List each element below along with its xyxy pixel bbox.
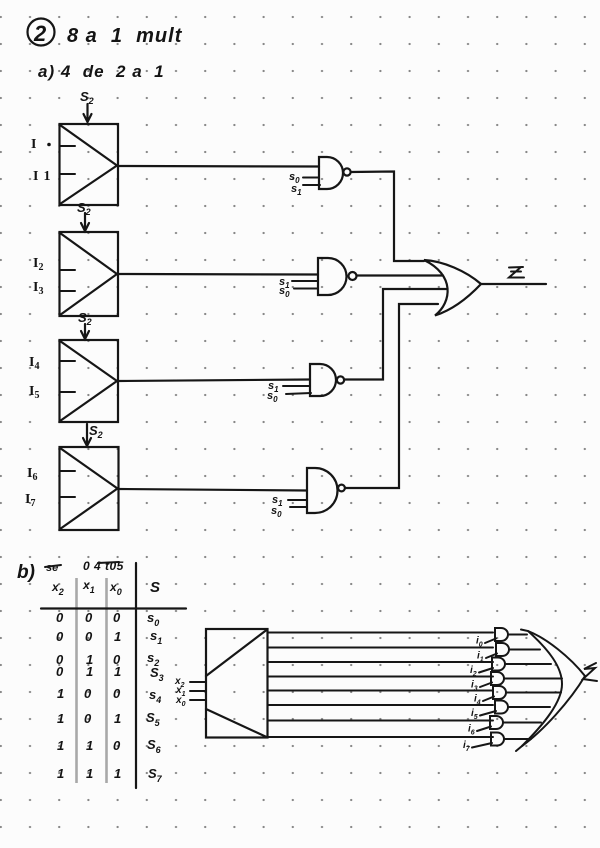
- wire A0 output into OR: [508, 634, 527, 636]
- mux M4 input ticks: [60, 471, 76, 497]
- mux M2 box: [60, 232, 119, 316]
- svg-text:0: 0: [56, 629, 64, 644]
- scribble "se" crossed out: [45, 562, 61, 574]
- svg-text:1: 1: [86, 738, 93, 753]
- wire A7 output into OR: [504, 738, 531, 740]
- wire M1 output to G1: [118, 165, 319, 168]
- svg-text:se: se: [46, 562, 58, 574]
- table column S labels s0..s7: [146, 610, 164, 784]
- G4 select input stubs: [288, 500, 307, 507]
- decoder D1 box: [206, 629, 268, 738]
- wire decoder output 5: [268, 704, 494, 706]
- wire M2 output to G2: [118, 273, 318, 276]
- wire decoder input x2: [190, 681, 206, 683]
- table grey ruler line 1: [75, 578, 78, 783]
- mux M2 input ticks: [60, 270, 76, 291]
- wire decoder output 2: [268, 661, 494, 663]
- wire G1 output to OR input 1: [351, 172, 424, 262]
- svg-text:8 a 1 mult: 8 a 1 mult: [67, 25, 183, 47]
- G3 select input stubs: [283, 386, 311, 394]
- AND gate A3: [491, 672, 504, 685]
- NAND gate G2: [318, 258, 357, 295]
- wire input i4 stub: [483, 697, 494, 702]
- NAND gate G3: [310, 364, 344, 396]
- wire input i7 stub: [472, 743, 492, 748]
- wire M4 output to G4: [118, 489, 307, 491]
- mux M3 input ticks: [60, 361, 76, 392]
- svg-text:0: 0: [56, 610, 64, 625]
- svg-text:1: 1: [114, 629, 121, 644]
- wire G4 output to OR input 4: [345, 304, 438, 488]
- wire decoder output 0: [268, 632, 494, 634]
- wire A2 output into OR: [505, 663, 551, 665]
- svg-text:0: 0: [84, 686, 92, 701]
- wire A4 output into OR: [506, 692, 561, 694]
- svg-text:S: S: [150, 579, 160, 596]
- NAND gate G4: [307, 468, 345, 513]
- svg-text:1: 1: [114, 664, 121, 679]
- svg-text:1: 1: [86, 766, 93, 781]
- AND gate A1: [496, 643, 509, 656]
- wire A3 output into OR: [504, 678, 562, 680]
- wire input i5 stub: [480, 711, 496, 716]
- label Z (output of U6): [583, 663, 597, 681]
- table grey ruler line 2: [105, 578, 108, 783]
- svg-text:1: 1: [114, 711, 121, 726]
- svg-text:0: 0: [113, 686, 121, 701]
- table column x0 digits: [113, 610, 121, 781]
- svg-text:1: 1: [114, 766, 121, 781]
- mux M1 input ticks: [60, 146, 76, 174]
- svg-text:1: 1: [57, 686, 64, 701]
- wire G3 output to OR input 3: [344, 289, 446, 380]
- wire input i2 stub: [479, 668, 493, 673]
- G2 select input stubs: [292, 281, 318, 289]
- svg-text:1: 1: [57, 711, 64, 726]
- wire decoder input x0: [190, 699, 206, 701]
- table header underline: [41, 607, 186, 609]
- svg-text:b): b): [17, 562, 35, 583]
- AND gate A6: [490, 716, 503, 729]
- wire select arrow into M1: [84, 104, 92, 122]
- mux M1 box: [60, 124, 119, 205]
- AND gate A4: [493, 686, 506, 699]
- svg-text:0: 0: [84, 711, 92, 726]
- wire input i0 stub: [485, 639, 496, 644]
- wire decoder input x1: [190, 690, 206, 692]
- wire A5 output into OR: [508, 706, 550, 708]
- svg-text:1: 1: [57, 766, 64, 781]
- wire OR output Z: [481, 283, 546, 285]
- wire select arrow into M4: [83, 424, 91, 446]
- wire select arrow into M2: [81, 213, 89, 231]
- wire M3 output to G3: [118, 380, 310, 382]
- OR gate U5: [424, 260, 481, 316]
- svg-text:a) 4 de 2 a 1: a) 4 de 2 a 1: [38, 62, 165, 81]
- table column x1 digits: [84, 610, 93, 781]
- wire decoder output 4: [268, 690, 494, 692]
- wire input i3 stub: [480, 683, 492, 688]
- wire G2 output to OR input 2: [357, 274, 444, 276]
- note text "0 a tos": [83, 559, 124, 573]
- svg-text:1: 1: [57, 738, 64, 753]
- label Z (output): [509, 267, 524, 278]
- G1 select input stubs: [303, 178, 320, 186]
- wire input i6 stub: [477, 727, 491, 732]
- wire A6 output into OR: [503, 722, 541, 724]
- table column x2 digits: [56, 610, 64, 781]
- svg-text:I: I: [31, 137, 36, 152]
- label I0: [31, 137, 51, 152]
- AND gate A7: [491, 733, 504, 746]
- svg-text:0: 0: [56, 664, 64, 679]
- svg-text:0: 0: [85, 629, 93, 644]
- svg-text:2: 2: [33, 21, 47, 46]
- NAND gate G1: [319, 157, 351, 189]
- wire A1 output into OR: [509, 649, 540, 651]
- table vertical line before S column: [135, 563, 137, 788]
- title circled number 2: [28, 19, 55, 47]
- wire decoder output 1: [268, 647, 494, 649]
- OR gate U6 (big): [516, 630, 585, 752]
- svg-text:1: 1: [86, 664, 93, 679]
- svg-text:0: 0: [113, 610, 121, 625]
- AND gate A5: [495, 701, 508, 714]
- AND gate A2: [492, 658, 505, 671]
- wire input i1 stub: [486, 654, 497, 659]
- wire decoder output 3: [268, 676, 494, 678]
- wire select arrow into M3: [81, 324, 89, 339]
- wire decoder output 7: [268, 736, 494, 738]
- svg-text:0: 0: [113, 738, 121, 753]
- AND gate A0: [495, 628, 508, 641]
- mux M4 box: [60, 447, 119, 530]
- svg-text:0: 0: [85, 610, 93, 625]
- wire decoder output 6: [268, 720, 494, 722]
- mux M3 box: [60, 340, 119, 422]
